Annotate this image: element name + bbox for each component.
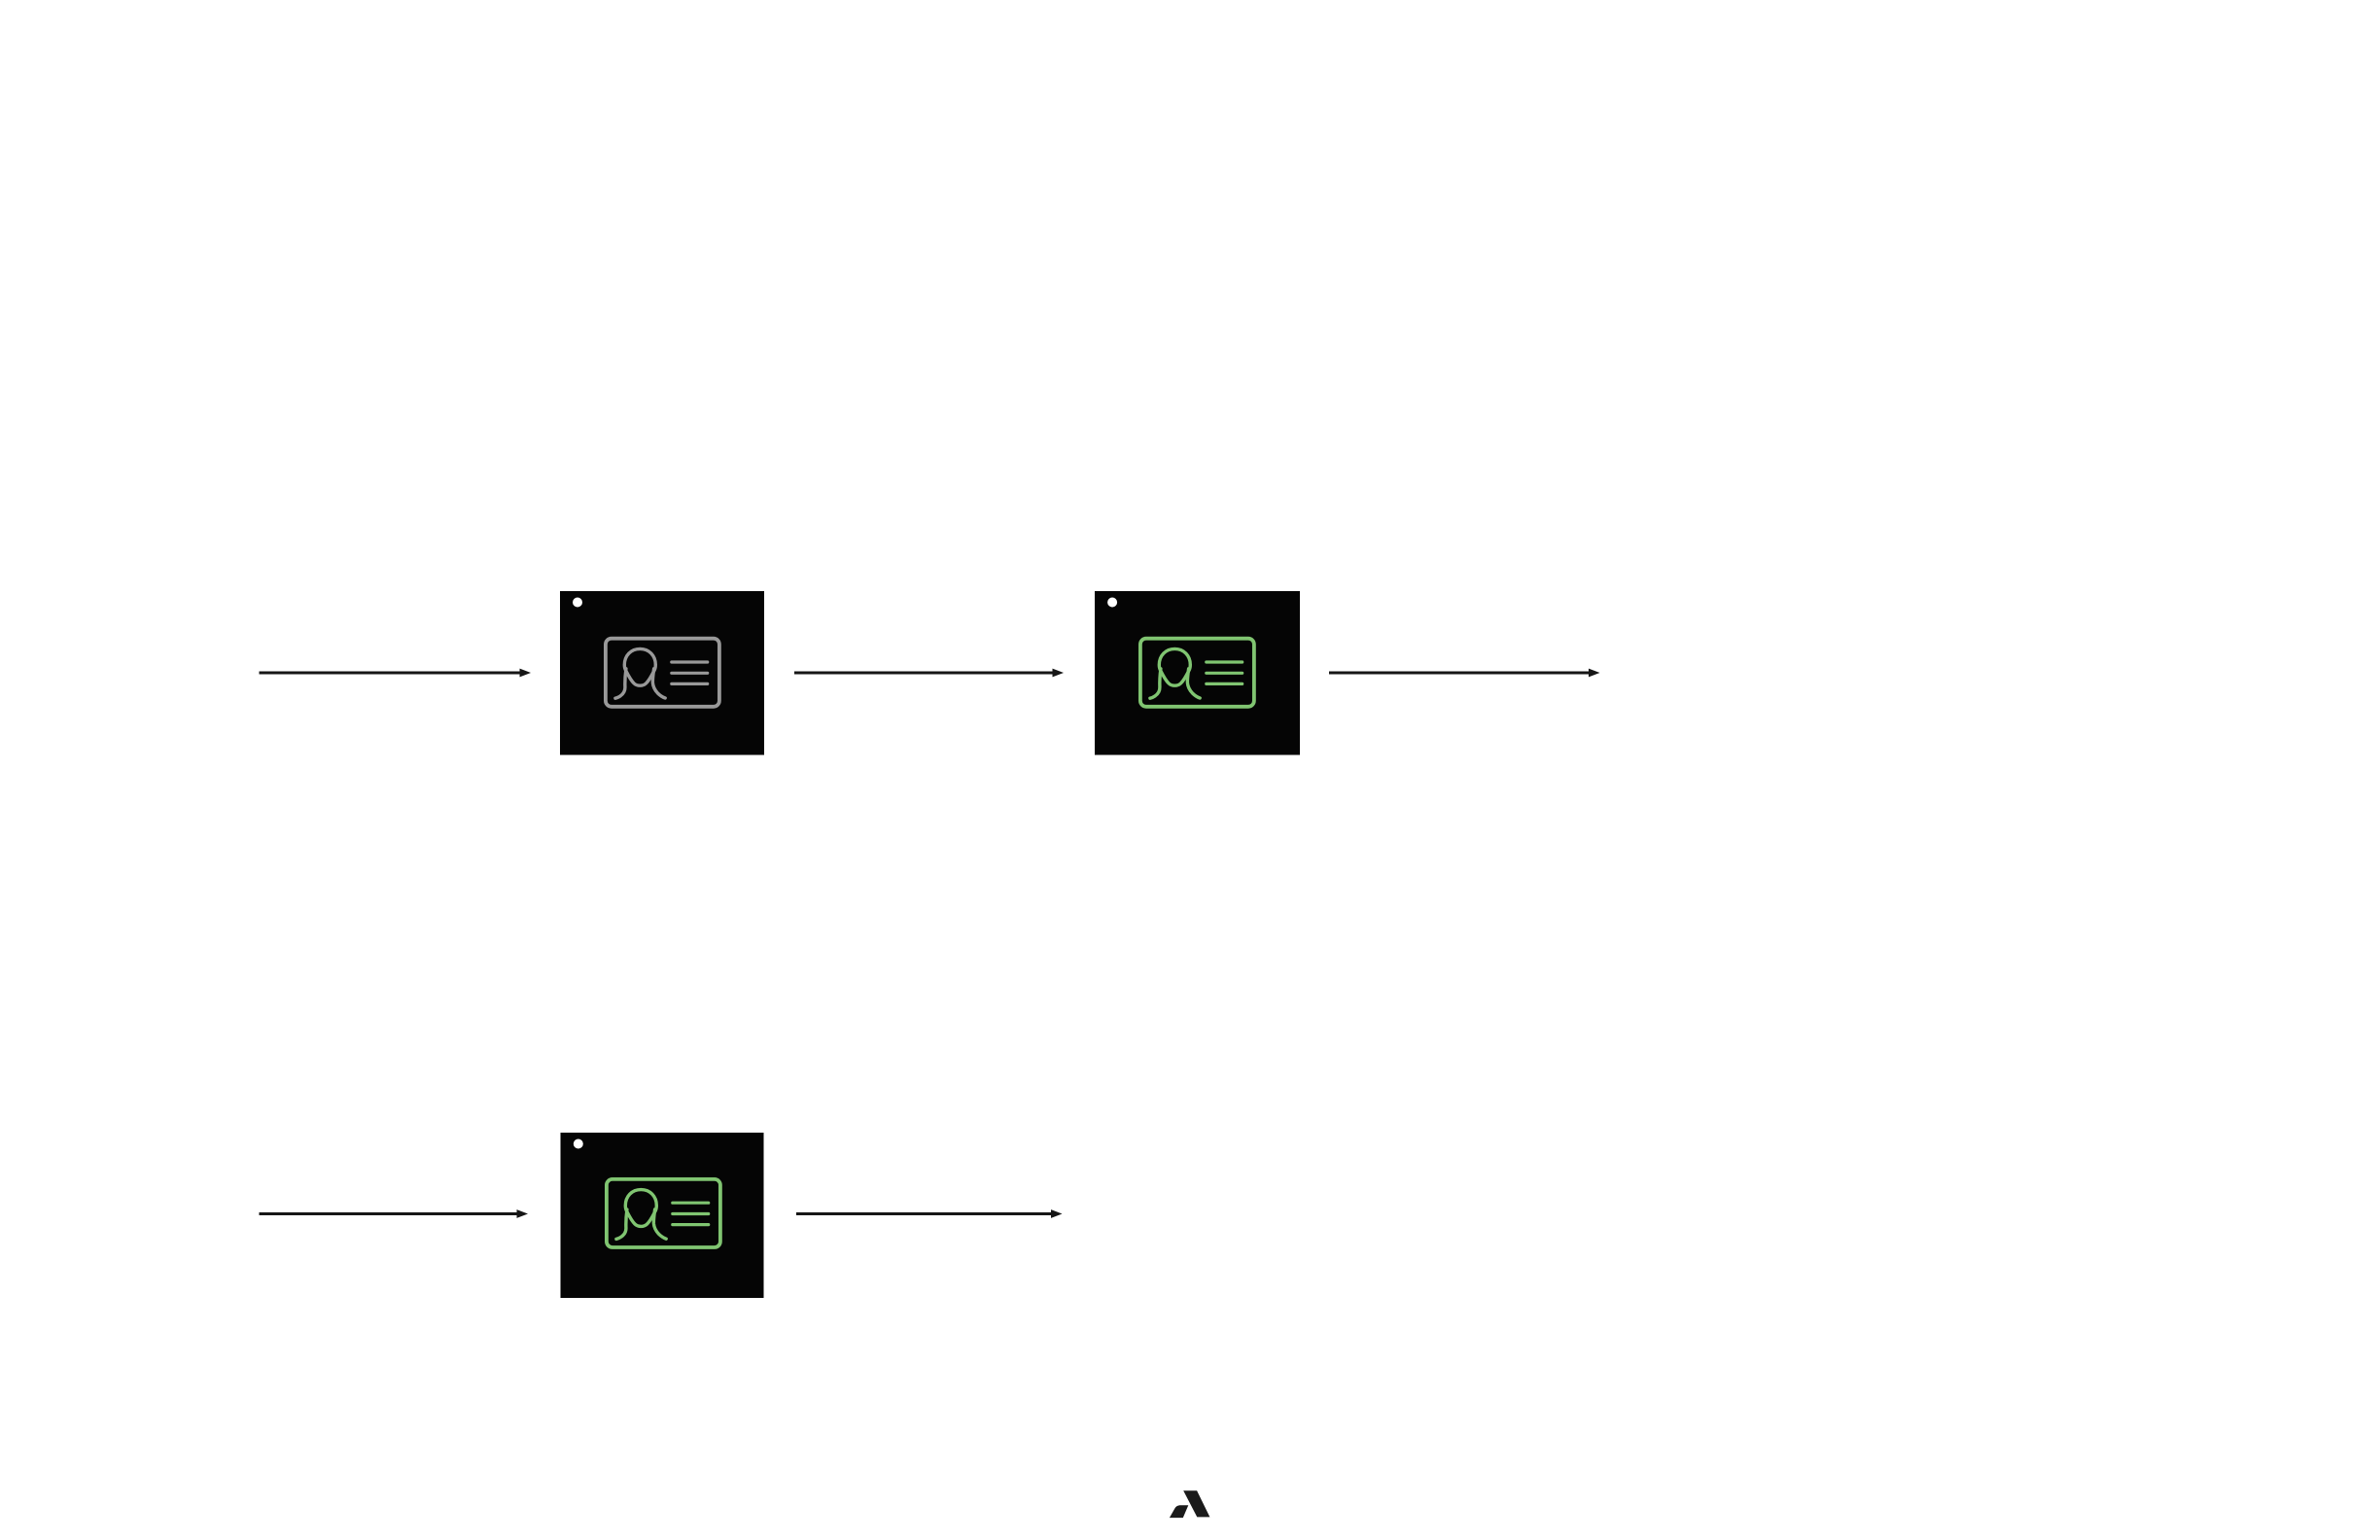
wire arrow A2 (S1 to S2): [794, 669, 1064, 678]
wire arrow A3 (out of screen S2): [1329, 669, 1600, 678]
id-card icon U1 (gray, unverified): [606, 639, 719, 707]
status dot on S1: [573, 598, 582, 608]
wire arrow A1 (into screen S1): [260, 669, 532, 678]
screen S2 (black monitor box): [1095, 591, 1300, 755]
wire arrow A5 (out of screen S3): [796, 1209, 1063, 1218]
logo mark (stylized A, bottom center): [1170, 1490, 1210, 1518]
wire arrow A4 (into screen S3): [260, 1209, 529, 1218]
status dot on S3: [574, 1139, 583, 1149]
id-card icon U2 (green, verified): [1140, 639, 1254, 707]
id-card icon U3 (green, verified): [607, 1179, 720, 1247]
screen S3 (black monitor box): [561, 1133, 764, 1298]
screen S1 (black monitor box): [560, 591, 764, 755]
status dot on S2: [1107, 598, 1117, 608]
